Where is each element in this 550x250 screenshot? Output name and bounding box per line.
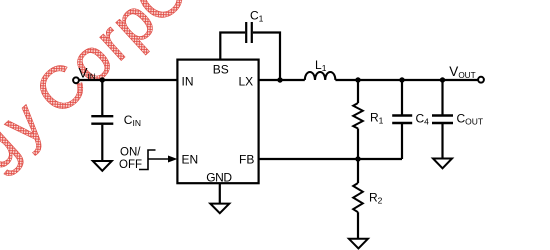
node junction dot at R1 top <box>355 77 360 82</box>
wire LX to L1 <box>259 79 305 81</box>
arrowhead into EN pin <box>168 156 177 163</box>
ground symbol below R2 <box>349 239 368 249</box>
ground symbol below COUT <box>433 159 452 169</box>
svg-text:BS: BS <box>213 63 229 77</box>
resistor R2 <box>353 183 363 212</box>
svg-text:FB: FB <box>239 153 254 167</box>
capacitor C4 <box>392 116 412 124</box>
wire FB net horizontal <box>259 158 402 160</box>
resistor R1 <box>353 103 363 128</box>
wire R2 bottom to ground <box>357 212 359 239</box>
wire R1 top <box>357 80 359 103</box>
node junction dot at C4 top <box>399 77 404 82</box>
node junction dot at VIN/CIN <box>100 77 105 82</box>
capacitor CIN <box>91 116 113 124</box>
wire C1 right plate down to LX node <box>253 33 280 81</box>
svg-text:GND: GND <box>206 171 232 185</box>
node junction dot at COUT top <box>440 77 445 82</box>
capacitor C1 <box>246 22 252 43</box>
svg-text:R1: R1 <box>370 111 384 126</box>
svg-text:R2: R2 <box>369 191 383 206</box>
wire R2 top <box>357 159 359 183</box>
wire COUT top <box>441 80 443 115</box>
wire VIN to IN pin <box>79 79 177 81</box>
svg-text:OFF: OFF <box>119 159 142 171</box>
wire CIN branch top <box>101 80 103 115</box>
wire GND pin down <box>219 183 221 203</box>
terminal VOUT open circle <box>478 77 484 83</box>
ground symbol below CIN <box>93 161 112 171</box>
svg-text:IN: IN <box>182 75 194 89</box>
node junction dot at FB/R1/R2 <box>355 156 360 161</box>
svg-text:L1: L1 <box>315 58 327 73</box>
svg-text:EN: EN <box>182 153 199 167</box>
wire COUT bottom to ground <box>441 124 443 159</box>
ON/OFF step waveform symbol <box>139 150 156 170</box>
svg-text:C4: C4 <box>416 112 430 127</box>
svg-text:LX: LX <box>239 75 254 89</box>
wire L1 to VOUT terminal <box>335 79 478 81</box>
svg-text:C1: C1 <box>250 9 264 24</box>
capacitor COUT <box>432 116 453 124</box>
svg-text:CIN: CIN <box>124 113 141 128</box>
node junction dot at C1/LX <box>277 77 282 82</box>
wire EN arrow line <box>148 158 169 160</box>
terminal VIN open circle <box>73 77 79 83</box>
svg-text:COUT: COUT <box>457 112 484 127</box>
svg-text:VOUT: VOUT <box>449 64 475 80</box>
IC U1 body <box>177 60 258 184</box>
svg-text:ON/: ON/ <box>120 147 141 159</box>
wire CIN bottom to ground <box>101 125 103 161</box>
wire R1 bottom <box>357 129 359 160</box>
ground symbol below GND pin <box>210 204 229 214</box>
wire C4 bottom to FB net <box>401 124 403 159</box>
wire BS pin up to C1 left plate <box>220 33 245 60</box>
watermark red diagonal text <box>0 0 333 250</box>
inductor L1 <box>305 72 336 80</box>
wire C4 top <box>401 80 403 115</box>
